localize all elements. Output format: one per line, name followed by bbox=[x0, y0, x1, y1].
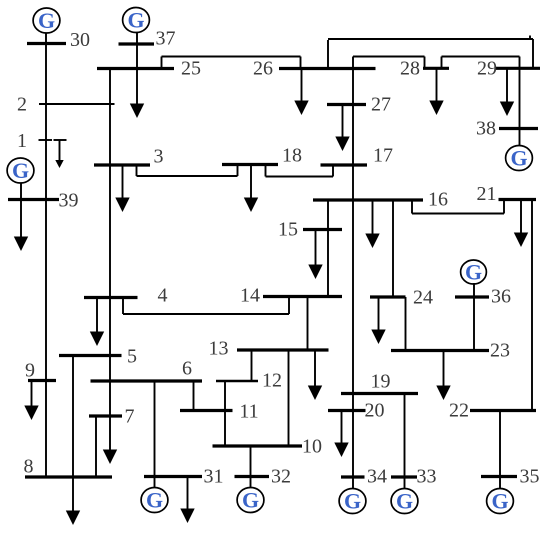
line 4-14 bbox=[123, 313, 289, 315]
svg-text:39: 39 bbox=[59, 190, 79, 212]
svg-text:21: 21 bbox=[477, 183, 497, 205]
wire 6-31-G31 bbox=[154, 381, 156, 488]
bus 31 bbox=[144, 475, 202, 478]
wire 25-26 left leg bbox=[161, 57, 163, 69]
bus 23 bbox=[391, 349, 489, 352]
generator G36 bbox=[461, 259, 487, 284]
generator G34 bbox=[339, 488, 366, 513]
svg-text:G: G bbox=[127, 7, 144, 32]
svg-text:29: 29 bbox=[477, 58, 497, 80]
svg-text:34: 34 bbox=[367, 466, 387, 488]
wire 16-15-14 bbox=[327, 200, 329, 297]
svg-text:G: G bbox=[38, 8, 55, 33]
bus 8 bbox=[25, 475, 112, 478]
wire G37-37-25 bbox=[136, 32, 138, 69]
load arrow bus28 bbox=[429, 68, 443, 115]
load arrow bus4 bbox=[90, 298, 104, 347]
wire 3-18 right leg bbox=[237, 165, 239, 176]
line 25-26 top bbox=[162, 56, 301, 58]
load arrow bus15 bbox=[308, 230, 322, 280]
wire 4-14 right leg bbox=[288, 297, 290, 315]
svg-text:G: G bbox=[146, 487, 163, 512]
svg-text:37: 37 bbox=[156, 28, 176, 50]
wire 28/29 leg-29-38-G38 bbox=[519, 57, 521, 147]
load arrow bus8 bbox=[66, 477, 80, 525]
svg-text:19: 19 bbox=[371, 371, 391, 393]
svg-text:G: G bbox=[510, 145, 527, 170]
bus 36 bbox=[455, 295, 489, 298]
wire 14-13 bbox=[307, 297, 309, 351]
svg-text:18: 18 bbox=[282, 145, 302, 167]
bus 32 bbox=[235, 475, 270, 478]
line 28-29 top bbox=[442, 56, 520, 58]
wire 26-28 right leg bbox=[424, 57, 426, 69]
load arrow bus13 bbox=[308, 350, 322, 400]
wire 3-18 left leg bbox=[136, 165, 138, 176]
wire 18-17 left leg bbox=[265, 165, 267, 177]
svg-text:23: 23 bbox=[490, 340, 510, 362]
bus 27 bbox=[327, 103, 366, 106]
wire 16-21 left leg bbox=[411, 200, 413, 214]
svg-text:27: 27 bbox=[371, 94, 391, 116]
bus 26 bbox=[279, 67, 376, 70]
svg-text:G: G bbox=[12, 158, 29, 183]
svg-text:6: 6 bbox=[182, 358, 192, 380]
wire bus30 spine (30-2-1-39-9-8) bbox=[45, 33, 47, 478]
bus 10 bbox=[213, 444, 303, 447]
svg-text:22: 22 bbox=[449, 400, 469, 422]
wire 16-21 right leg bbox=[503, 200, 505, 214]
svg-text:1: 1 bbox=[17, 130, 27, 152]
load arrow bus9 bbox=[24, 381, 38, 421]
svg-text:G: G bbox=[344, 488, 361, 513]
svg-text:15: 15 bbox=[278, 219, 298, 241]
bus 7 bbox=[89, 414, 122, 417]
svg-text:7: 7 bbox=[125, 406, 135, 428]
bus 5 bbox=[59, 354, 122, 357]
svg-text:24: 24 bbox=[413, 287, 433, 309]
generator G38 bbox=[506, 145, 533, 170]
load arrow bus21 bbox=[514, 200, 528, 248]
bus 12 bbox=[216, 380, 258, 382]
bus 35 bbox=[481, 475, 517, 478]
svg-text:17: 17 bbox=[373, 145, 393, 167]
svg-text:4: 4 bbox=[158, 285, 168, 307]
line 26-28 top bbox=[353, 56, 425, 58]
wire 26-29 left leg bbox=[327, 40, 329, 69]
svg-text:5: 5 bbox=[127, 346, 137, 368]
wire 13-10 bbox=[288, 350, 290, 446]
bus 21 bbox=[499, 198, 537, 201]
svg-text:28: 28 bbox=[400, 58, 420, 80]
wire 12-11-10 bbox=[224, 381, 226, 446]
wire 5-8 bbox=[72, 356, 74, 478]
bus 6 bbox=[91, 379, 203, 382]
wire 19-33-G33 bbox=[404, 394, 406, 489]
bus 18 bbox=[222, 163, 278, 166]
line 16-21 bbox=[412, 213, 504, 215]
bus 25 bbox=[97, 67, 174, 70]
load arrow bus7/25-line bbox=[103, 450, 117, 465]
svg-text:16: 16 bbox=[428, 189, 448, 211]
svg-text:31: 31 bbox=[204, 466, 224, 488]
generator G33 bbox=[391, 488, 418, 513]
bus 17 bbox=[321, 163, 368, 166]
load arrow bus16 bbox=[365, 200, 379, 248]
bus 19 bbox=[341, 392, 418, 395]
svg-text:35: 35 bbox=[520, 466, 540, 488]
wire 13-12 bbox=[251, 350, 253, 381]
wire 28-29 left leg bbox=[441, 57, 443, 69]
wire 26-29 right leg bbox=[532, 39, 534, 68]
wire 22-35-G35 bbox=[499, 411, 501, 489]
svg-text:G: G bbox=[242, 487, 259, 512]
load arrow bus31 bbox=[180, 477, 194, 524]
svg-text:38: 38 bbox=[476, 118, 496, 140]
svg-text:8: 8 bbox=[24, 456, 34, 478]
bus 14 bbox=[263, 295, 342, 298]
wire 6-11 bbox=[193, 381, 195, 411]
bus 4 bbox=[84, 296, 138, 299]
wire 18-17 right leg bbox=[332, 165, 334, 177]
svg-text:G: G bbox=[465, 259, 482, 284]
wire 4-14 left leg bbox=[122, 298, 124, 315]
bus 39 bbox=[8, 198, 59, 201]
line 26-29 top bbox=[328, 38, 533, 40]
generator G35 bbox=[487, 488, 514, 513]
svg-text:13: 13 bbox=[209, 338, 229, 360]
bus 22 bbox=[470, 409, 536, 412]
svg-text:12: 12 bbox=[262, 370, 282, 392]
svg-text:G: G bbox=[491, 488, 508, 513]
svg-text:2: 2 bbox=[17, 94, 27, 116]
bus 15 bbox=[303, 228, 342, 231]
svg-text:32: 32 bbox=[271, 466, 291, 488]
bus 13 bbox=[237, 348, 329, 351]
wire 10-32-G32 bbox=[250, 446, 252, 488]
svg-text:10: 10 bbox=[302, 436, 322, 458]
bus 16 bbox=[313, 198, 423, 201]
load arrow bus20 bbox=[334, 411, 348, 458]
svg-text:11: 11 bbox=[239, 401, 258, 423]
load arrow bus25 bbox=[130, 69, 144, 119]
line 3-18 bbox=[137, 175, 238, 177]
svg-text:9: 9 bbox=[25, 360, 35, 382]
wire 24-23 bbox=[405, 297, 407, 351]
generator G37 bbox=[123, 7, 150, 32]
node 1 tick bbox=[39, 139, 53, 141]
bus 24 bbox=[370, 295, 406, 298]
bus 34 bbox=[341, 475, 365, 478]
bus 11 bbox=[180, 409, 233, 412]
load arrow bus26 bbox=[294, 69, 308, 116]
load arrow node1 bbox=[55, 140, 63, 168]
wire G36-36-23 bbox=[473, 283, 475, 351]
svg-text:36: 36 bbox=[491, 286, 511, 308]
svg-text:3: 3 bbox=[154, 146, 164, 168]
wire stub at corner bbox=[529, 36, 531, 41]
wire G39 lead bbox=[20, 183, 22, 200]
bus 20 bbox=[328, 409, 366, 412]
generator G39 bbox=[7, 158, 34, 183]
bus 30 bbox=[27, 42, 66, 45]
load arrow node 1 (T-bar) bbox=[54, 139, 67, 141]
bus 29 bbox=[495, 67, 540, 70]
svg-text:30: 30 bbox=[70, 29, 90, 51]
load arrow bus3 bbox=[115, 165, 129, 212]
generator G30 bbox=[33, 8, 60, 33]
load arrow bus39 bbox=[14, 200, 28, 252]
generator G32 bbox=[237, 487, 264, 512]
svg-text:14: 14 bbox=[240, 285, 260, 307]
bus 3 bbox=[94, 163, 150, 166]
load arrow bus18 bbox=[244, 165, 258, 213]
svg-text:33: 33 bbox=[417, 466, 437, 488]
node 2 line bbox=[39, 103, 115, 105]
load arrow bus23 bbox=[436, 351, 450, 401]
bus 37 bbox=[119, 42, 155, 45]
wire 21-22 bbox=[531, 200, 533, 411]
generator G31 bbox=[141, 487, 168, 512]
svg-text:20: 20 bbox=[365, 400, 385, 422]
line 18-17 bbox=[266, 176, 334, 178]
bus 33 bbox=[391, 475, 417, 478]
load arrow bus24 bbox=[371, 297, 385, 344]
svg-text:G: G bbox=[396, 488, 413, 513]
wire 16-24 bbox=[392, 200, 394, 297]
svg-text:25: 25 bbox=[181, 58, 201, 80]
bus 9 bbox=[28, 379, 56, 382]
load arrow bus29 bbox=[500, 68, 514, 116]
wire 25-26 right leg bbox=[300, 57, 302, 69]
bus 38 bbox=[499, 127, 538, 130]
wire bus25 spine (25-2-3-4-5-6-7) bbox=[109, 69, 111, 452]
wire main spine (26-27-17-16-19-20-34-G34) bbox=[352, 57, 354, 489]
bus 28 bbox=[423, 67, 449, 70]
wire 7-8 bbox=[95, 416, 97, 477]
load arrow bus27 bbox=[335, 105, 349, 152]
svg-text:26: 26 bbox=[253, 58, 273, 80]
